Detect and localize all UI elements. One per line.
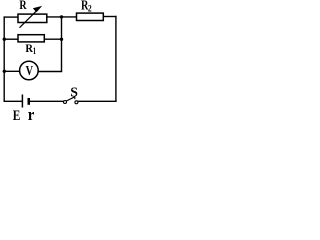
node: left rail / voltmeter row junction: [3, 70, 6, 73]
switch S: blade end tick: [74, 96, 76, 99]
svg-text:E: E: [13, 108, 21, 121]
svg-text:V: V: [26, 63, 33, 78]
wire: top rail from resistor R2 to top-right corner: [103, 16, 117, 18]
wire: right rail: [115, 16, 117, 102]
node: left rail / R1 row junction: [3, 38, 6, 41]
resistor R1: [18, 35, 44, 42]
node: middle rail / R1 row junction: [60, 38, 63, 41]
svg-text:r: r: [28, 105, 35, 121]
node: middle rail / top rail junction: [60, 15, 63, 18]
resistor R2: [77, 13, 104, 20]
battery: long plate (E): [21, 95, 23, 108]
rheostat R (box with arrow): [18, 6, 47, 28]
switch S: left contact: [64, 101, 67, 104]
wire: bottom rail from left corner to battery: [4, 100, 23, 102]
wire: voltmeter row left segment: [4, 70, 20, 72]
svg-text:R: R: [19, 0, 26, 12]
wire: bottom rail from switch S to bottom-right corner: [78, 100, 117, 102]
wire: middle vertical rail: [61, 16, 63, 71]
wire: R1 row left segment: [4, 38, 18, 40]
svg-text:S: S: [70, 85, 78, 100]
svg-text:1: 1: [33, 46, 36, 57]
wire: R1 row right segment: [44, 38, 62, 40]
wire: top rail from left corner to rheostat R: [4, 16, 18, 18]
battery: short thick plate: [28, 98, 31, 105]
wire: bottom rail from battery to switch S: [30, 100, 64, 102]
wire: top rail from rheostat R to resistor R2: [47, 16, 77, 18]
voltmeter V: [20, 61, 39, 80]
wire: left rail: [3, 16, 5, 102]
svg-text:2: 2: [88, 3, 92, 14]
wire: voltmeter row right segment: [38, 71, 62, 73]
switch S: blade: [66, 97, 75, 101]
switch S: right contact: [75, 101, 78, 104]
